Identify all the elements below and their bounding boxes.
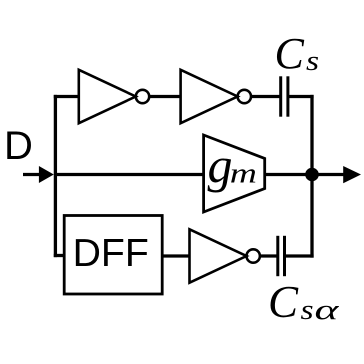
wire right vertical bus xyxy=(310,95,313,258)
capacitor Csa left plate xyxy=(276,236,279,276)
svg-text:g: g xyxy=(208,137,233,193)
svg-text:m: m xyxy=(230,158,257,190)
wire input D horizontal xyxy=(23,173,41,176)
svg-text:s: s xyxy=(301,293,314,325)
flip-flop DFF box xyxy=(64,216,162,295)
wire left vertical bus xyxy=(54,95,57,257)
transconductor gm trapezoid xyxy=(204,135,265,212)
wire from gm to output node xyxy=(265,173,344,176)
wire from U3 to capacitor Csa xyxy=(260,254,278,257)
inverter U2 bubble xyxy=(238,90,251,103)
wire from Cs to right bus xyxy=(288,95,314,98)
wire DFF to inverter U3 xyxy=(162,254,190,257)
capacitor Cs left plate xyxy=(279,76,282,116)
wire from Csa to right bus xyxy=(285,254,314,257)
node junction dot xyxy=(305,168,319,182)
wire top branch from bus to inverter U1 xyxy=(54,95,79,98)
inverter U1 bubble xyxy=(136,90,149,103)
inverter U2 triangle xyxy=(181,70,238,123)
inverter U1 triangle xyxy=(79,70,136,123)
capacitor Cs right plate xyxy=(286,76,289,116)
svg-text:s: s xyxy=(306,45,319,77)
svg-text:C: C xyxy=(275,29,305,78)
svg-text:C: C xyxy=(268,277,299,327)
wire between U1 and U2 xyxy=(149,95,181,98)
svg-text:α: α xyxy=(315,294,340,325)
svg-text:DFF: DFF xyxy=(73,232,149,275)
inverter U3 triangle xyxy=(190,229,247,282)
inverter U3 bubble xyxy=(247,249,260,262)
wire bottom-left corner into DFF xyxy=(54,254,65,257)
output arrowhead xyxy=(343,166,361,183)
wire middle branch from bus to gm amp xyxy=(55,173,204,176)
capacitor Csa right plate xyxy=(283,236,286,276)
input arrowhead into node at left bus xyxy=(39,166,54,183)
svg-text:D: D xyxy=(4,124,33,168)
wire from U2 to capacitor Cs xyxy=(251,95,281,98)
